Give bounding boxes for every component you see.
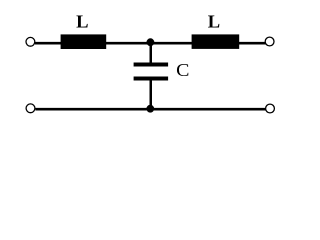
- node junction top: [147, 38, 155, 46]
- terminal top-left: [26, 37, 35, 46]
- wire capacitor upper stub: [150, 42, 153, 64]
- svg-text:C: C: [176, 60, 189, 80]
- wire capacitor lower stub: [150, 80, 153, 110]
- terminal bottom-left: [26, 104, 35, 113]
- wire bottom segment: [35, 108, 265, 111]
- capacitor C bottom plate: [134, 77, 169, 81]
- node junction bottom: [146, 105, 154, 113]
- svg-text:L: L: [76, 12, 88, 32]
- terminal top-right: [265, 37, 274, 46]
- svg-text:L: L: [208, 12, 220, 32]
- wire top-left segment: [35, 42, 62, 45]
- capacitor C top plate: [134, 63, 169, 67]
- terminal bottom-right: [266, 104, 275, 113]
- inductor L (right) body: [192, 34, 240, 49]
- wire top-right segment: [238, 42, 266, 45]
- inductor L (left) body: [61, 34, 107, 49]
- wire top-middle segment: [105, 42, 193, 45]
